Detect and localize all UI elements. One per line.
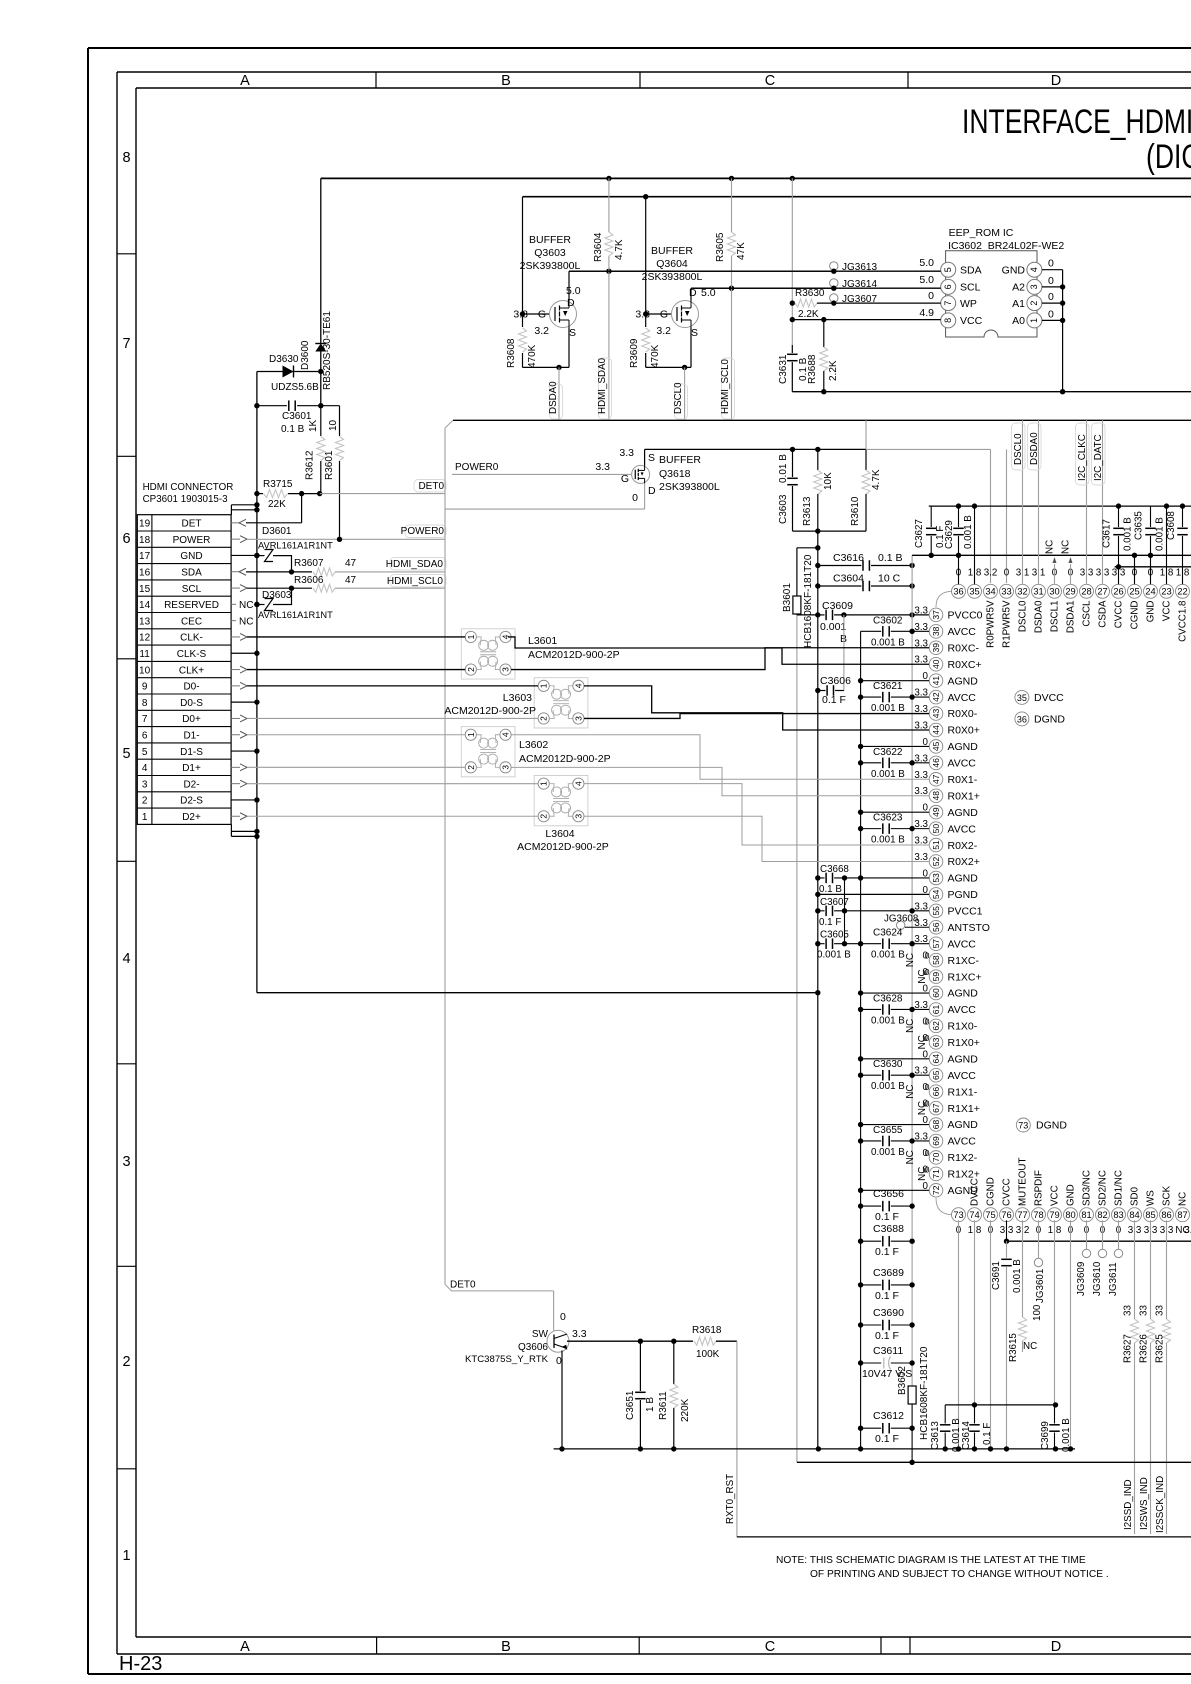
wire PGND pin 54 bbox=[818, 893, 929, 895]
svg-text:HDMI_SDA0: HDMI_SDA0 bbox=[597, 357, 608, 414]
svg-text:C3691: C3691 bbox=[991, 1261, 1002, 1290]
rail DVCC bottom bbox=[945, 1404, 1055, 1406]
svg-text:CP3601 1903015-3: CP3601 1903015-3 bbox=[143, 494, 229, 505]
wire L3604 pin4 to R0X2- bbox=[584, 784, 929, 845]
svg-text:DSDA0: DSDA0 bbox=[548, 381, 559, 414]
svg-text:AVRL161A1R1NT: AVRL161A1R1NT bbox=[258, 610, 333, 620]
svg-text:79: 79 bbox=[1049, 1210, 1059, 1220]
wire Q3603 drain bbox=[568, 271, 570, 300]
jumper JG3608 / wire ANTSTO pin 56 bbox=[905, 926, 929, 928]
svg-text:4.9: 4.9 bbox=[919, 307, 934, 319]
resistor R3608 470K bbox=[519, 328, 527, 352]
IC pin 40 R0XC+ bbox=[929, 657, 943, 671]
svg-text:AGND: AGND bbox=[948, 988, 979, 1000]
svg-text:42: 42 bbox=[931, 692, 941, 702]
svg-text:2: 2 bbox=[122, 1354, 130, 1370]
svg-text:10: 10 bbox=[328, 419, 339, 431]
wire D1- to L3602 bbox=[247, 734, 465, 736]
svg-text:0: 0 bbox=[925, 1082, 930, 1092]
svg-text:DVCC: DVCC bbox=[970, 1178, 981, 1206]
svg-text:D1-: D1- bbox=[183, 730, 199, 741]
svg-text:NC: NC bbox=[905, 1019, 916, 1033]
svg-text:HDMI_SCL0: HDMI_SCL0 bbox=[387, 576, 444, 587]
svg-text:DET: DET bbox=[182, 519, 202, 530]
svg-text:54: 54 bbox=[931, 889, 941, 899]
pin D2+ arrow bbox=[231, 815, 240, 817]
svg-text:0: 0 bbox=[925, 1016, 930, 1026]
svg-text:75: 75 bbox=[985, 1210, 995, 1220]
svg-text:WP: WP bbox=[960, 298, 977, 310]
IC pin 87 NC bbox=[1176, 1208, 1190, 1222]
IC pin 53 AGND bbox=[929, 871, 943, 885]
svg-text:R1X1+: R1X1+ bbox=[948, 1103, 980, 1115]
svg-text:C3655: C3655 bbox=[873, 1125, 903, 1136]
bus outline left edge bbox=[444, 428, 446, 1284]
net HDMI_SCL0 wire bbox=[335, 587, 445, 589]
svg-text:0.001 B: 0.001 B bbox=[1012, 1259, 1023, 1293]
svg-text:33: 33 bbox=[1139, 1305, 1150, 1316]
svg-text:24: 24 bbox=[1145, 587, 1155, 597]
svg-text:CEC: CEC bbox=[181, 616, 202, 627]
svg-text:C3605: C3605 bbox=[820, 930, 849, 941]
bus outline DET0 corner bbox=[445, 1284, 554, 1291]
svg-text:0.1 F: 0.1 F bbox=[875, 1211, 899, 1223]
svg-text:2: 2 bbox=[466, 667, 476, 672]
wire connector pin D2-S to ground bus bbox=[231, 799, 257, 801]
net HDMI_SDA0 vertical bbox=[608, 271, 610, 420]
wire joining C3668/C3607/C3605 bbox=[844, 878, 846, 944]
title block band borders bbox=[117, 71, 1191, 73]
capacitor C3613 0.001B bbox=[944, 1405, 946, 1424]
resistor R3715 22K bbox=[257, 493, 263, 495]
resistor R3609 470K bbox=[642, 328, 650, 352]
svg-text:100K: 100K bbox=[696, 1349, 720, 1360]
choke L3601 ACM2012D-900-2P bbox=[461, 629, 515, 679]
IC pin 57 AVCC bbox=[929, 937, 943, 951]
svg-text:3.2: 3.2 bbox=[656, 325, 671, 337]
svg-text:C3616: C3616 bbox=[833, 552, 864, 564]
svg-text:3.3: 3.3 bbox=[1184, 1225, 1191, 1236]
resistor R3601 10 bbox=[339, 406, 341, 436]
IC pin 81 SD3/NC bbox=[1080, 1208, 1094, 1222]
svg-text:L3601: L3601 bbox=[528, 635, 557, 647]
svg-text:A: A bbox=[240, 1639, 250, 1655]
svg-text:AVCC: AVCC bbox=[948, 938, 977, 950]
svg-text:D3601: D3601 bbox=[262, 526, 292, 537]
wire Q3604 gate loop bbox=[645, 197, 647, 327]
svg-text:80: 80 bbox=[1065, 1210, 1075, 1220]
capacitor C3617 0.001B on pin26 bbox=[1118, 506, 1120, 527]
resistor R3607 47 on SDA bbox=[246, 571, 312, 573]
svg-text:SCL: SCL bbox=[182, 584, 202, 595]
svg-text:D3603: D3603 bbox=[262, 590, 292, 601]
svg-text:19: 19 bbox=[139, 519, 151, 530]
wire Q3618 source to 5V node rail bbox=[644, 449, 646, 465]
svg-text:BUFFER: BUFFER bbox=[651, 245, 693, 257]
resistor R3615 100 / NC on pin77 MUTEOUT bbox=[1022, 1220, 1024, 1317]
svg-text:4.7K: 4.7K bbox=[871, 469, 882, 490]
wire CLK+ to L3601 bbox=[247, 669, 465, 671]
svg-text:AGND: AGND bbox=[948, 675, 979, 687]
IC pin 79 VCC bbox=[1048, 1208, 1062, 1222]
svg-text:D0-S: D0-S bbox=[180, 698, 203, 709]
svg-text:Q3604: Q3604 bbox=[656, 258, 688, 270]
svg-text:C3699: C3699 bbox=[1040, 1421, 1051, 1450]
svg-text:R0PWR5V: R0PWR5V bbox=[986, 600, 997, 648]
svg-text:27: 27 bbox=[1097, 587, 1107, 597]
IC pin 55 PVCC1 bbox=[929, 904, 943, 918]
svg-text:I2C_DATC: I2C_DATC bbox=[1093, 434, 1104, 481]
svg-text:6: 6 bbox=[943, 284, 953, 289]
svg-text:GND: GND bbox=[1002, 264, 1026, 276]
wire Q3618 drain bbox=[644, 483, 646, 509]
svg-text:0.001 B: 0.001 B bbox=[817, 950, 851, 961]
svg-text:4: 4 bbox=[1029, 267, 1039, 272]
svg-text:67: 67 bbox=[931, 1103, 941, 1113]
svg-text:R3618: R3618 bbox=[692, 1325, 722, 1336]
svg-text:C: C bbox=[765, 73, 775, 89]
ground bus wire left of connector bbox=[256, 372, 258, 993]
svg-text:R3613: R3613 bbox=[802, 496, 813, 526]
svg-text:R0X0+: R0X0+ bbox=[948, 725, 980, 737]
svg-text:C3609: C3609 bbox=[822, 600, 853, 612]
svg-text:NC: NC bbox=[1045, 540, 1056, 554]
svg-text:JG3611: JG3611 bbox=[1108, 1262, 1119, 1296]
svg-text:BUFFER: BUFFER bbox=[529, 234, 571, 246]
svg-text:JG3609: JG3609 bbox=[1076, 1262, 1087, 1296]
svg-text:23: 23 bbox=[1161, 587, 1171, 597]
svg-text:WS: WS bbox=[1146, 1190, 1157, 1206]
svg-text:0.1 F: 0.1 F bbox=[982, 1423, 993, 1445]
svg-text:5.0: 5.0 bbox=[919, 274, 934, 286]
svg-text:UDZS5.6B: UDZS5.6B bbox=[271, 382, 319, 393]
capacitor C3627 0.1F bbox=[930, 506, 932, 527]
svg-text:RESERVED: RESERVED bbox=[164, 600, 219, 611]
resistor R3606 47 on SCL bbox=[247, 587, 312, 589]
svg-text:5.0: 5.0 bbox=[919, 257, 934, 269]
svg-text:4: 4 bbox=[573, 683, 583, 688]
svg-text:JG3610: JG3610 bbox=[1092, 1261, 1103, 1296]
svg-text:R3607: R3607 bbox=[294, 558, 324, 569]
svg-text:66: 66 bbox=[931, 1087, 941, 1097]
svg-text:0: 0 bbox=[1048, 258, 1054, 270]
net I2C_CLKC callout to pin28 bbox=[1086, 420, 1088, 584]
choke L3602 ACM2012D-900-2P bbox=[461, 727, 515, 777]
svg-text:AVCC: AVCC bbox=[948, 626, 977, 638]
svg-text:35: 35 bbox=[969, 587, 979, 597]
net DET0 wire to bus area bbox=[320, 493, 445, 495]
svg-text:MUTEOUT: MUTEOUT bbox=[1018, 1158, 1029, 1206]
svg-text:R0X2-: R0X2- bbox=[948, 840, 978, 852]
wire AGND pin 64 bbox=[861, 1058, 930, 1060]
wire AGND pin 49 bbox=[861, 811, 930, 813]
svg-text:ACM2012D-900-2P: ACM2012D-900-2P bbox=[528, 649, 620, 661]
svg-text:C3604: C3604 bbox=[833, 573, 864, 585]
svg-text:65: 65 bbox=[931, 1070, 941, 1080]
svg-text:NC: NC bbox=[1061, 540, 1072, 554]
svg-text:53: 53 bbox=[931, 873, 941, 883]
svg-text:C3621: C3621 bbox=[873, 681, 903, 692]
svg-text:AVCC: AVCC bbox=[948, 1070, 977, 1082]
svg-text:83: 83 bbox=[1113, 1210, 1123, 1220]
net HDMI_SCL0 vertical bbox=[731, 288, 733, 420]
svg-text:38: 38 bbox=[931, 626, 941, 636]
svg-text:R3601: R3601 bbox=[324, 450, 335, 480]
IC pin 31 DSDA0 bbox=[1032, 584, 1046, 598]
wire 5V vertical from top rail bbox=[320, 178, 322, 343]
svg-text:36: 36 bbox=[1017, 714, 1027, 724]
bus outline top edge bbox=[453, 419, 1191, 421]
svg-text:55: 55 bbox=[931, 906, 941, 916]
svg-text:28: 28 bbox=[1081, 587, 1091, 597]
capacitor C3630 0.001B bbox=[861, 1074, 882, 1076]
IC pin 83 SD1/NC bbox=[1112, 1208, 1126, 1222]
svg-text:71: 71 bbox=[931, 1169, 941, 1179]
svg-text:3: 3 bbox=[573, 716, 583, 721]
svg-text:AGND: AGND bbox=[948, 873, 979, 885]
svg-text:61: 61 bbox=[931, 1004, 941, 1014]
svg-text:86: 86 bbox=[1161, 1210, 1171, 1220]
svg-text:3.3: 3.3 bbox=[619, 447, 634, 459]
ferrite bead B3601 HCB1608KF-181T20 bbox=[797, 547, 818, 549]
pin 18 POWER arrow bbox=[231, 538, 240, 540]
svg-text:SD3/NC: SD3/NC bbox=[1082, 1170, 1093, 1206]
IC pin 34 R0PWR5V bbox=[984, 584, 998, 598]
wire Q3604 source to node bbox=[646, 366, 691, 368]
svg-text:NC: NC bbox=[1178, 1192, 1189, 1206]
wire VCC 4.9 to pin8 bbox=[792, 319, 940, 321]
wire D3630 to bus and node bbox=[257, 371, 283, 373]
svg-text:4: 4 bbox=[573, 781, 583, 786]
svg-text:0.001 B: 0.001 B bbox=[963, 515, 974, 549]
svg-text:B: B bbox=[501, 1639, 511, 1655]
wire D0- to L3603 bbox=[247, 685, 538, 687]
IC pin 32 DSCL0 bbox=[1016, 584, 1030, 598]
ground rail bottom bbox=[554, 1448, 1075, 1450]
IC pin 77 MUTEOUT bbox=[1016, 1208, 1030, 1222]
resistor R3625 33 on pin 86 bbox=[1166, 1220, 1168, 1319]
IC pin 58 R1XC- bbox=[929, 953, 943, 967]
svg-text:82: 82 bbox=[1097, 1210, 1107, 1220]
svg-text:KTC3875S_Y_RTK: KTC3875S_Y_RTK bbox=[465, 1354, 549, 1365]
svg-text:AVCC: AVCC bbox=[948, 823, 977, 835]
IC pin 66 R1X1- bbox=[929, 1085, 943, 1099]
svg-text:0: 0 bbox=[925, 1099, 930, 1109]
capacitor C3603 0.01B bbox=[792, 449, 794, 477]
svg-text:DSDA0: DSDA0 bbox=[1029, 432, 1040, 465]
ground rail bottom right bbox=[797, 1461, 1191, 1463]
svg-text:1: 1 bbox=[466, 634, 476, 639]
svg-text:14: 14 bbox=[139, 600, 151, 611]
wire pin35 DVCC up bbox=[974, 506, 976, 584]
IC pin 37 PVCC0 bbox=[929, 608, 943, 622]
IC pin 27 CSDA bbox=[1096, 584, 1110, 598]
svg-text:G: G bbox=[621, 473, 629, 485]
svg-text:63: 63 bbox=[931, 1037, 941, 1047]
svg-text:52: 52 bbox=[931, 857, 941, 867]
svg-text:R0X1-: R0X1- bbox=[948, 774, 978, 786]
IC pin 65 AVCC bbox=[929, 1068, 943, 1082]
svg-text:RB520S-30-TE61: RB520S-30-TE61 bbox=[322, 311, 333, 390]
shield stub wires top bbox=[231, 504, 257, 506]
svg-text:3: 3 bbox=[573, 814, 583, 819]
svg-text:3.2: 3.2 bbox=[984, 568, 998, 579]
svg-text:2SK393800L: 2SK393800L bbox=[659, 481, 720, 493]
svg-text:45: 45 bbox=[931, 741, 941, 751]
svg-text:DSCL0: DSCL0 bbox=[673, 382, 684, 414]
AGND rail vertical bbox=[817, 531, 819, 1449]
capacitor C3688 bbox=[861, 1240, 882, 1242]
IC pin 56 ANTSTO bbox=[929, 920, 943, 934]
svg-text:3.3: 3.3 bbox=[914, 605, 928, 616]
IC pin 64 AGND bbox=[929, 1052, 943, 1066]
wire 5V to R0PWR5V pins bbox=[866, 448, 991, 450]
wire Q3604 drain bbox=[690, 288, 692, 300]
svg-text:0.01 B: 0.01 B bbox=[778, 454, 789, 483]
svg-text:0.001 B: 0.001 B bbox=[871, 1147, 905, 1158]
svg-text:OF PRINTING AND SUBJECT TO CHA: OF PRINTING AND SUBJECT TO CHANGE WITHOU… bbox=[810, 1569, 1109, 1580]
IC pin 74 DVCC bbox=[968, 1208, 982, 1222]
net POWER0 wire inside bus bbox=[452, 473, 631, 475]
svg-text:CVCC: CVCC bbox=[1114, 601, 1125, 629]
net DSDA0 callout to pin31 bbox=[1038, 420, 1040, 584]
capacitor C3628 0.001B bbox=[861, 1008, 882, 1010]
IC3602 pin 6 SCL bbox=[941, 279, 956, 294]
svg-text:0: 0 bbox=[928, 290, 934, 302]
svg-text:PGND: PGND bbox=[948, 889, 979, 901]
IC pin 30 DSCL1 bbox=[1048, 584, 1062, 598]
svg-text:0.001 B: 0.001 B bbox=[871, 637, 905, 648]
wire AGND pin 41 bbox=[861, 680, 930, 682]
IC pin 72 AGND bbox=[929, 1184, 943, 1198]
svg-text:87: 87 bbox=[1177, 1210, 1187, 1220]
svg-text:HDMI CONNECTOR: HDMI CONNECTOR bbox=[143, 482, 234, 493]
svg-text:3: 3 bbox=[122, 1154, 130, 1170]
wire pin36 DGND up bbox=[958, 555, 960, 584]
transistor Q3606 KTC3875S_Y_RTK bbox=[547, 1330, 569, 1352]
IC pin 69 AVCC bbox=[929, 1134, 943, 1148]
svg-text:2SK393800L: 2SK393800L bbox=[520, 260, 581, 272]
pin D1+ arrow bbox=[231, 766, 240, 768]
EEPROM A0-A2 wires bbox=[1042, 269, 1063, 271]
svg-text:48: 48 bbox=[931, 791, 941, 801]
svg-text:26: 26 bbox=[1113, 587, 1123, 597]
svg-text:INTERFACE_HDMI: INTERFACE_HDMI bbox=[962, 103, 1191, 141]
svg-text:DET0: DET0 bbox=[418, 481, 444, 492]
capacitor C3656 bbox=[861, 1205, 882, 1207]
svg-text:6: 6 bbox=[142, 730, 148, 741]
wire D2- to L3604 bbox=[247, 783, 538, 785]
IC pin 63 R1X0+ bbox=[929, 1036, 943, 1050]
svg-text:57: 57 bbox=[931, 939, 941, 949]
pin30 NC stub bbox=[1054, 564, 1056, 584]
svg-text:74: 74 bbox=[969, 1210, 979, 1220]
pin 14 NC bbox=[231, 603, 236, 605]
svg-text:0.001: 0.001 bbox=[820, 621, 846, 633]
svg-text:10K: 10K bbox=[823, 472, 834, 490]
svg-text:R1XC-: R1XC- bbox=[948, 955, 980, 967]
svg-text:L3603: L3603 bbox=[503, 692, 532, 704]
svg-text:1: 1 bbox=[1029, 318, 1039, 323]
wire connector pin D1-S to ground bus bbox=[231, 750, 257, 752]
capacitor C3612 0.1F bbox=[861, 1427, 882, 1429]
wire DET pin to R3715 node bbox=[301, 494, 303, 523]
svg-text:64: 64 bbox=[931, 1054, 941, 1064]
svg-text:R3610: R3610 bbox=[850, 496, 861, 526]
net DSCL0 vertical bbox=[684, 367, 686, 420]
net I2C_DATC callout to pin27 bbox=[1102, 420, 1104, 584]
svg-text:C3629: C3629 bbox=[944, 520, 955, 549]
svg-text:0.001 B: 0.001 B bbox=[871, 769, 905, 780]
capacitor C3606 0.1F bbox=[815, 688, 820, 693]
IC pin 22 CVCC1.8 bbox=[1176, 584, 1190, 598]
svg-text:JG3608: JG3608 bbox=[884, 913, 919, 924]
wire Q3606 collector rail bbox=[567, 1340, 693, 1342]
wire L3602 pin3 to R0X1+ bbox=[511, 767, 929, 795]
pin D2- arrow bbox=[231, 783, 240, 785]
svg-text:EEP_ROM IC: EEP_ROM IC bbox=[949, 227, 1014, 239]
capacitor C3651 1B bbox=[639, 1341, 641, 1391]
svg-text:R0X1+: R0X1+ bbox=[948, 790, 980, 802]
svg-text:D2-S: D2-S bbox=[180, 796, 203, 807]
svg-text:SCL: SCL bbox=[960, 282, 981, 294]
capacitor C3623 0.001B bbox=[861, 828, 882, 830]
svg-text:84: 84 bbox=[1129, 1210, 1139, 1220]
connector CP3601 table bbox=[137, 515, 231, 825]
svg-text:C3628: C3628 bbox=[873, 993, 903, 1004]
svg-text:AGND: AGND bbox=[948, 807, 979, 819]
svg-text:GND: GND bbox=[1146, 601, 1157, 623]
svg-text:3.3: 3.3 bbox=[572, 1328, 587, 1340]
svg-text:8: 8 bbox=[943, 318, 953, 323]
svg-text:AGND: AGND bbox=[948, 1119, 979, 1131]
svg-text:R3715: R3715 bbox=[263, 479, 293, 490]
svg-text:3: 3 bbox=[501, 667, 511, 672]
svg-text:ACM2012D-900-2P: ACM2012D-900-2P bbox=[517, 841, 609, 853]
legend pin35 DVCC bbox=[1015, 690, 1029, 704]
svg-text:73: 73 bbox=[953, 1210, 963, 1220]
svg-text:R3625: R3625 bbox=[1155, 1334, 1166, 1363]
svg-text:R1X2-: R1X2- bbox=[948, 1152, 978, 1164]
svg-text:AVCC: AVCC bbox=[948, 758, 977, 770]
svg-text:78: 78 bbox=[1033, 1210, 1043, 1220]
svg-text:81: 81 bbox=[1081, 1210, 1091, 1220]
IC pin 39 R0XC- bbox=[929, 641, 943, 655]
svg-text:D3630: D3630 bbox=[269, 354, 299, 365]
IC pin 45 AGND bbox=[929, 740, 943, 754]
svg-text:0: 0 bbox=[925, 967, 930, 977]
svg-text:5: 5 bbox=[122, 746, 130, 762]
jumper JG3609 on pin81 bbox=[1086, 1220, 1088, 1249]
svg-text:DET0: DET0 bbox=[450, 1280, 476, 1291]
svg-text:25: 25 bbox=[1129, 587, 1139, 597]
wire 3.3V gate rail bbox=[523, 196, 1191, 198]
wire pin75 down to ground bbox=[990, 1220, 992, 1449]
svg-text:C3623: C3623 bbox=[873, 813, 903, 824]
pin D1- arrow bbox=[231, 734, 240, 736]
svg-text:GND: GND bbox=[180, 551, 202, 562]
svg-text:D2-: D2- bbox=[183, 779, 199, 790]
svg-text:4: 4 bbox=[142, 763, 148, 774]
svg-text:R3630: R3630 bbox=[795, 288, 825, 299]
resistor R3613 10K bbox=[817, 449, 819, 470]
transistor Q3618 2SK393800L bbox=[632, 465, 650, 483]
EEPROM ground wire bbox=[792, 391, 1191, 393]
wire L3601 pin4 to R0XC+ bbox=[508, 637, 929, 664]
svg-text:HCB1608KF-181T20: HCB1608KF-181T20 bbox=[803, 554, 814, 648]
svg-text:C3631: C3631 bbox=[778, 354, 789, 384]
svg-text:ANTSTO: ANTSTO bbox=[948, 922, 990, 934]
